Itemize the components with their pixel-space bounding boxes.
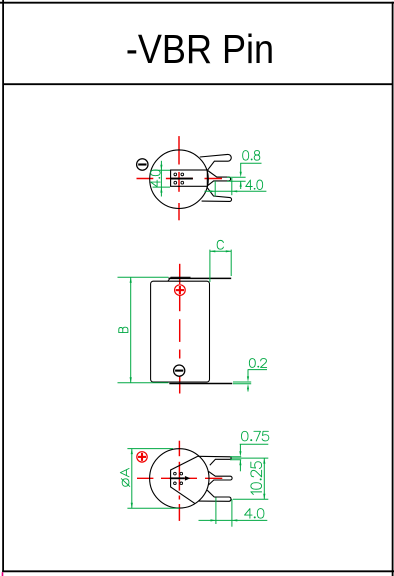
red horizontal centerline xyxy=(137,178,154,180)
battery circle outline xyxy=(150,449,209,508)
dim 0.75 pin thickness xyxy=(230,444,268,471)
bottom pin xyxy=(199,490,231,501)
frame right xyxy=(392,2,394,576)
middle pin tab xyxy=(207,171,230,186)
value label 4.0 (vertical) xyxy=(151,170,161,187)
value label B xyxy=(119,327,128,332)
value label 0.8 xyxy=(243,151,260,161)
bottom pin tab line xyxy=(169,383,232,385)
battery circle outline xyxy=(150,150,209,209)
plot registration tick xyxy=(2,572,4,576)
minus terminal symbol xyxy=(137,159,148,170)
polarity arrow xyxy=(170,477,185,479)
value label 4.0 xyxy=(245,509,264,519)
plus terminal symbol xyxy=(137,452,147,462)
top pin tab xyxy=(200,154,231,170)
red horizontal centerline xyxy=(137,477,153,479)
plateau left riser xyxy=(168,278,171,282)
value label diameter A (vertical) xyxy=(120,468,129,486)
header plate outline xyxy=(171,456,198,503)
bottom pin tab xyxy=(202,187,232,202)
frame top xyxy=(0,2,394,4)
svg-text:-VBR Pin: -VBR Pin xyxy=(126,26,274,72)
pin holes xyxy=(174,472,183,484)
frame bottom xyxy=(2,570,394,572)
negative strip bar xyxy=(171,178,193,180)
title separator xyxy=(3,83,393,85)
red vertical centerline xyxy=(178,441,180,457)
value label 10.25 (vertical) xyxy=(251,462,262,495)
plus terminal symbol xyxy=(175,285,186,296)
minus terminal symbol xyxy=(174,365,185,376)
value label 0.2 xyxy=(249,359,266,368)
positive button plateau xyxy=(171,276,191,278)
battery body xyxy=(151,281,210,382)
red vertical centerline xyxy=(178,136,180,164)
dim C top length xyxy=(210,250,231,282)
dim B height xyxy=(118,277,169,383)
dim diameter A xyxy=(127,449,179,509)
dim 0.8 pin thickness xyxy=(227,163,262,189)
value label C xyxy=(217,240,223,249)
dim 4.0 bottom xyxy=(199,498,268,527)
dim 4.0 header height xyxy=(153,161,171,197)
dim 10.25 pin span xyxy=(232,458,269,499)
value label 4.0 xyxy=(246,180,263,190)
dim 4.0 pin offset xyxy=(205,178,267,196)
dim 0.2 bottom xyxy=(233,370,267,392)
pin header rect xyxy=(171,170,208,186)
top pin tab line xyxy=(169,277,232,279)
value label 0.75 xyxy=(241,431,268,441)
pin holes xyxy=(174,173,184,184)
frame left xyxy=(2,0,4,572)
top pin xyxy=(198,456,231,465)
red vertical centerline xyxy=(179,264,181,284)
middle pin dart xyxy=(208,471,232,485)
